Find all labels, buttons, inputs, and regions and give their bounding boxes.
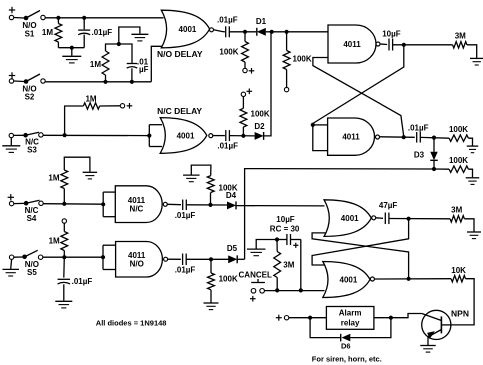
- node + terminal below R3: [243, 68, 247, 72]
- node junction C9/R13: [209, 257, 213, 261]
- capacitor C9 .01uF: [182, 254, 184, 265]
- wire C11 to R15: [389, 218, 450, 220]
- node FF1 Qbar junction: [402, 135, 406, 139]
- wire U3 output: [167, 203, 181, 205]
- wire C9 to D5: [186, 258, 228, 260]
- svg-text:relay: relay: [341, 319, 360, 328]
- ground (R8): [467, 145, 479, 147]
- node + terminal above R6: [241, 92, 245, 96]
- svg-text:S2: S2: [25, 93, 35, 102]
- transistor... gate U3 4011 N/C: [115, 186, 162, 223]
- resistor R5 1M: [65, 106, 84, 135]
- svg-text:100K: 100K: [449, 125, 468, 134]
- node junction relay/D6 right: [389, 316, 393, 320]
- diode D4: [227, 201, 236, 209]
- ground (R9): [466, 177, 480, 179]
- svg-text:D4: D4: [226, 191, 237, 200]
- svg-text:4011: 4011: [342, 132, 360, 141]
- resistor R9 100K: [449, 166, 468, 172]
- wire U2 output: [213, 135, 225, 137]
- wire bus D5 to D3 junction: [245, 169, 434, 260]
- svg-text:D1: D1: [256, 17, 267, 26]
- svg-text:CANCEL: CANCEL: [239, 271, 272, 280]
- wire C3 to D1: [229, 31, 256, 33]
- wire relay to collector node: [374, 317, 391, 319]
- ground (S1 RC): [71, 48, 73, 56]
- ground (C8): [55, 300, 72, 302]
- op... gate U7 4001 (FF2 top): [324, 200, 371, 237]
- wire U6 input tie: [313, 124, 328, 126]
- svg-text:D2: D2: [254, 122, 265, 131]
- resistor R13 100K: [210, 259, 212, 273]
- svg-text:3M: 3M: [283, 261, 294, 270]
- svg-text:100K: 100K: [219, 275, 238, 284]
- switch S2 (N/O): [14, 80, 24, 83]
- wire U4 input tie: [102, 245, 104, 269]
- node junction C7/R11: [208, 203, 212, 207]
- gate U2 output bubble: [209, 134, 213, 138]
- wire U1 output: [214, 30, 225, 32]
- op... gate U1 4001 N/O DELAY: [161, 10, 209, 48]
- svg-text:4011: 4011: [343, 40, 361, 49]
- node junction R4: [285, 30, 289, 34]
- wire S5 row: [43, 256, 103, 258]
- svg-text:1M: 1M: [48, 174, 59, 183]
- wire collector lead: [391, 314, 422, 318]
- node FF1 Q junction: [402, 43, 406, 47]
- ground (RC node): [256, 240, 277, 249]
- node junction C3/R3: [243, 30, 247, 34]
- resistor R1 1M: [57, 18, 59, 24]
- ground (emitter): [420, 345, 436, 347]
- svg-text:.01µF: .01µF: [175, 211, 196, 220]
- svg-text:RC = 30: RC = 30: [270, 225, 300, 234]
- ground (S2 RC): [119, 27, 140, 44]
- node terminal S3 left: [9, 133, 13, 137]
- resistor R6 100K: [242, 127, 244, 136]
- wire C4 to D2: [229, 135, 254, 137]
- diode D3: [433, 138, 435, 152]
- svg-text:S5: S5: [27, 268, 37, 277]
- svg-text:.01µF: .01µF: [175, 266, 196, 275]
- svg-text:.01µF: .01µF: [92, 28, 113, 37]
- wire S4 row: [43, 203, 103, 206]
- svg-text:100K: 100K: [293, 55, 312, 64]
- svg-text:N/O: N/O: [130, 260, 144, 269]
- svg-text:10µF: 10µF: [276, 215, 295, 224]
- ground (R13): [204, 302, 219, 304]
- relay K1 Alarm relay box: [326, 307, 374, 330]
- svg-text:47µF: 47µF: [379, 201, 398, 210]
- node terminal S5 left: [9, 255, 13, 259]
- node junction S2/R2: [103, 80, 107, 84]
- wire U3 input tie: [102, 192, 104, 217]
- resistor R7 3M: [453, 42, 467, 48]
- node junction C6/D3/R8: [432, 136, 436, 140]
- svg-text:10µF: 10µF: [382, 30, 401, 39]
- resistor R12 1M: [63, 251, 65, 258]
- op... gate U8 4001 (FF2 bottom): [323, 262, 370, 298]
- diode D2: [255, 132, 264, 140]
- node terminal above R12: [62, 219, 66, 223]
- svg-text:D5: D5: [227, 244, 238, 253]
- wire U2 input tie: [148, 125, 150, 147]
- resistor R15 3M: [450, 216, 464, 222]
- svg-text:N/C: N/C: [130, 204, 144, 213]
- wire FF1 feedback A (U5 out to U6 in): [313, 45, 404, 124]
- wire S3 row to gate U2: [43, 134, 149, 136]
- gate U5 output bubble: [376, 42, 380, 46]
- gate U6 output bubble: [376, 135, 380, 139]
- wire CANCEL to gate U8 input: [264, 290, 324, 292]
- ground (R7): [470, 57, 483, 59]
- svg-text:4001: 4001: [340, 275, 358, 284]
- node junction D2 riser: [270, 30, 274, 34]
- svg-text:D6: D6: [341, 342, 351, 351]
- svg-text:Alarm: Alarm: [339, 309, 362, 318]
- transistor... gate U4 4011 N/O: [116, 242, 163, 278]
- svg-text:1M: 1M: [85, 95, 96, 104]
- wire C10 riser to U8 input line: [300, 240, 302, 291]
- node FF2 Qbar junction: [407, 277, 411, 281]
- wire D4 to gate U7 input: [236, 205, 325, 207]
- wire C6 to R8: [420, 136, 449, 139]
- svg-text:S4: S4: [27, 214, 37, 223]
- node junction D3/R9/bus: [432, 167, 436, 171]
- node junction S3/R5: [63, 133, 67, 137]
- wire U5 output to C5: [380, 43, 387, 46]
- capacitor C1 .01uF: [83, 18, 85, 30]
- svg-text:1M: 1M: [49, 237, 60, 246]
- wire R1/C1 common: [58, 47, 84, 49]
- node FF2 Q junction: [407, 217, 411, 221]
- diode D6 (flyback): [310, 318, 341, 338]
- wire S1 row to gate U1 input: [45, 17, 163, 19]
- svg-text:4001: 4001: [179, 25, 197, 34]
- wire D1 to gate U5 input: [266, 31, 328, 33]
- diode D1: [257, 28, 266, 36]
- node + supply terminal relay: [276, 317, 282, 319]
- resistor R3 100K: [244, 32, 246, 42]
- switch S3 (N/C): [23, 133, 28, 138]
- svg-text:N/O DELAY: N/O DELAY: [157, 49, 203, 59]
- ground (S3): [10, 138, 12, 146]
- capacitor C6 .01uF: [416, 132, 418, 143]
- node terminal below R4: [284, 87, 288, 91]
- transistor... gate U6 4011 (FF1 bottom): [328, 118, 375, 155]
- capacitor C4 .01uF: [225, 130, 227, 141]
- node R2-C2 ground junction: [117, 42, 121, 46]
- resistor R14 3M: [276, 240, 278, 252]
- wire U7 output to C11: [376, 217, 383, 220]
- wire D5 to bus riser: [237, 258, 244, 260]
- node U4 input tie junction: [101, 255, 105, 259]
- ground (R15): [467, 231, 481, 233]
- wire U4 output: [168, 258, 181, 260]
- capacitor C8 .01uF: [63, 257, 66, 277]
- svg-text:N/C DELAY: N/C DELAY: [157, 106, 202, 116]
- node U2 input tie junction: [147, 134, 151, 138]
- wire C7 to D4: [186, 204, 227, 206]
- wire riser S2 to gate U1 lower input: [151, 46, 163, 82]
- resistor R11 100K: [210, 193, 212, 205]
- node U3 input tie junction: [101, 202, 105, 206]
- node junction S4/R10: [62, 202, 66, 206]
- node junction C4/R6: [241, 134, 245, 138]
- wire FF2 feedback A (U7 out to U8 in): [312, 219, 409, 265]
- ground (S5): [10, 259, 13, 269]
- node junction ground/C10/R14: [275, 237, 279, 241]
- wire D2 riser to D1 junction: [264, 32, 271, 136]
- node junction S2/C2: [130, 80, 134, 84]
- node junction S1/R1: [56, 16, 60, 20]
- svg-text:S1: S1: [25, 30, 35, 39]
- resistor R4 100K: [286, 32, 288, 51]
- gate U3 output bubble: [163, 202, 167, 206]
- svg-text:µF: µF: [139, 65, 149, 74]
- svg-text:10K: 10K: [451, 266, 466, 275]
- svg-text:4001: 4001: [177, 131, 195, 140]
- switch S1 (N/O): [14, 17, 24, 20]
- transistor... gate U5 4011 (FF1 top): [328, 25, 376, 63]
- node junction R14/cancel: [275, 288, 279, 292]
- svg-text:100K: 100K: [449, 156, 468, 165]
- svg-text:.01µF: .01µF: [217, 142, 238, 151]
- gate U7 output bubble: [372, 216, 376, 220]
- capacitor C2 .01uF: [131, 68, 133, 82]
- node junction C10/cancel: [299, 288, 303, 292]
- switch S5 (N/O): [14, 256, 23, 258]
- svg-text:All diodes = 1N9148: All diodes = 1N9148: [96, 319, 167, 328]
- gate U4 output bubble: [164, 257, 168, 261]
- gate U1 output bubble: [210, 28, 214, 32]
- wire relay + feed: [289, 317, 327, 319]
- capacitor C11 47uF: [384, 213, 386, 225]
- svg-text:S3: S3: [27, 146, 37, 155]
- gate U8 output bubble: [370, 277, 374, 281]
- wire S2 row: [45, 81, 151, 83]
- node junction S5/R12/C8: [62, 255, 66, 259]
- wire U6 output: [380, 136, 415, 139]
- svg-text:100K: 100K: [251, 110, 270, 119]
- resistor R2 1M: [105, 75, 107, 82]
- node + terminal after R5: [120, 104, 124, 108]
- svg-text:3M: 3M: [455, 32, 466, 41]
- transistor Q1 NPN: [422, 310, 451, 339]
- svg-text:4001: 4001: [341, 214, 359, 223]
- svg-text:.01µF: .01µF: [217, 16, 238, 25]
- node R1-C1 ground junction: [70, 46, 74, 50]
- switch S4 (N/C): [14, 202, 25, 204]
- ground (R11): [183, 174, 200, 176]
- node junction relay/D6 left: [308, 316, 312, 320]
- capacitor C5 10uF: [388, 39, 390, 51]
- svg-text:3M: 3M: [451, 206, 462, 215]
- resistor R16 10K: [451, 276, 465, 282]
- capacitor C7 .01uF: [182, 200, 184, 211]
- ground (R10): [83, 171, 98, 173]
- wire U8 output: [374, 278, 451, 280]
- node junction S1/C1: [82, 16, 86, 20]
- svg-text:NPN: NPN: [451, 309, 469, 319]
- resistor R10 1M: [63, 189, 65, 204]
- svg-text:1M: 1M: [90, 60, 101, 69]
- svg-text:100K: 100K: [219, 48, 238, 57]
- wire C5 to R7: [393, 44, 453, 46]
- svg-text:.01µF: .01µF: [408, 124, 429, 133]
- wire FF2 feedback B (U8 out to U7 in): [312, 233, 409, 279]
- svg-text:D3: D3: [414, 151, 425, 160]
- node + supply terminal S1: [9, 9, 15, 11]
- wire FF1 feedback B (U6 out to U5 in): [313, 58, 404, 137]
- op... gate U2 4001 N/C DELAY: [160, 118, 207, 154]
- svg-text:1M: 1M: [42, 28, 53, 37]
- resistor R8 100K: [449, 135, 468, 141]
- svg-text:For siren, horn, etc.: For siren, horn, etc.: [312, 355, 382, 364]
- node + supply terminal S2: [9, 75, 15, 77]
- node + supply terminal S4: [8, 196, 14, 198]
- capacitor C10 10uF: [277, 239, 287, 241]
- node U6 input tie junction: [311, 123, 315, 127]
- diode D5: [228, 255, 237, 263]
- capacitor C3 .01uF: [225, 26, 227, 37]
- svg-text:.01µF: .01µF: [72, 277, 93, 286]
